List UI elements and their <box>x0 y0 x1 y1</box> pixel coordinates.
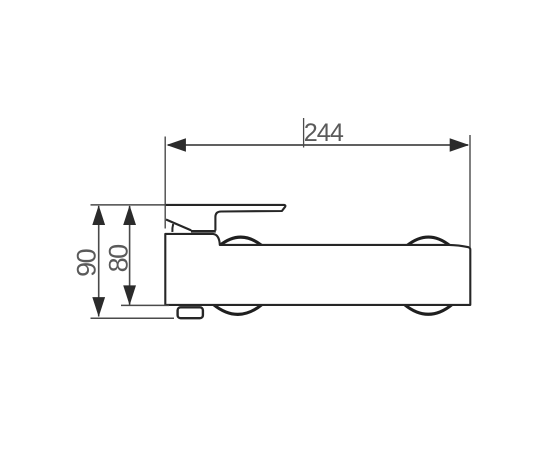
dim 244 left extension line <box>164 137 166 229</box>
left escutcheon bottom arc <box>213 304 262 314</box>
dim 90 bottom arrow <box>92 297 105 317</box>
dim 90 top arrow <box>92 205 105 225</box>
dim 244 right arrow <box>450 138 470 151</box>
svg-text:80: 80 <box>103 245 133 273</box>
lever handle <box>165 205 285 231</box>
dim 90 line <box>98 206 100 317</box>
dim 80 line <box>129 206 131 305</box>
bottom extension line (body bottom, 80) <box>121 304 169 306</box>
right escutcheon bottom arc <box>404 304 452 314</box>
right escutcheon top arc <box>407 237 450 246</box>
svg-text:244: 244 <box>304 119 344 147</box>
bottom extension line (outlet bottom, 90) <box>91 317 175 319</box>
dim 244 left arrow <box>166 138 186 151</box>
hose outlet block <box>178 307 203 318</box>
left escutcheon top arc <box>220 237 262 246</box>
cartridge cap plate <box>191 230 216 233</box>
dim 244 right extension line <box>469 135 471 247</box>
cartridge cap slant <box>166 220 191 231</box>
top extension line (handle top) <box>91 204 166 206</box>
dim 244 line <box>168 144 468 146</box>
faucet body <box>165 234 470 305</box>
dim 244 text tick <box>303 118 305 148</box>
dim 80 bottom arrow <box>123 285 136 305</box>
dim 80 top arrow <box>123 205 136 225</box>
svg-text:90: 90 <box>72 249 102 277</box>
cartridge cap face tick <box>171 224 174 232</box>
